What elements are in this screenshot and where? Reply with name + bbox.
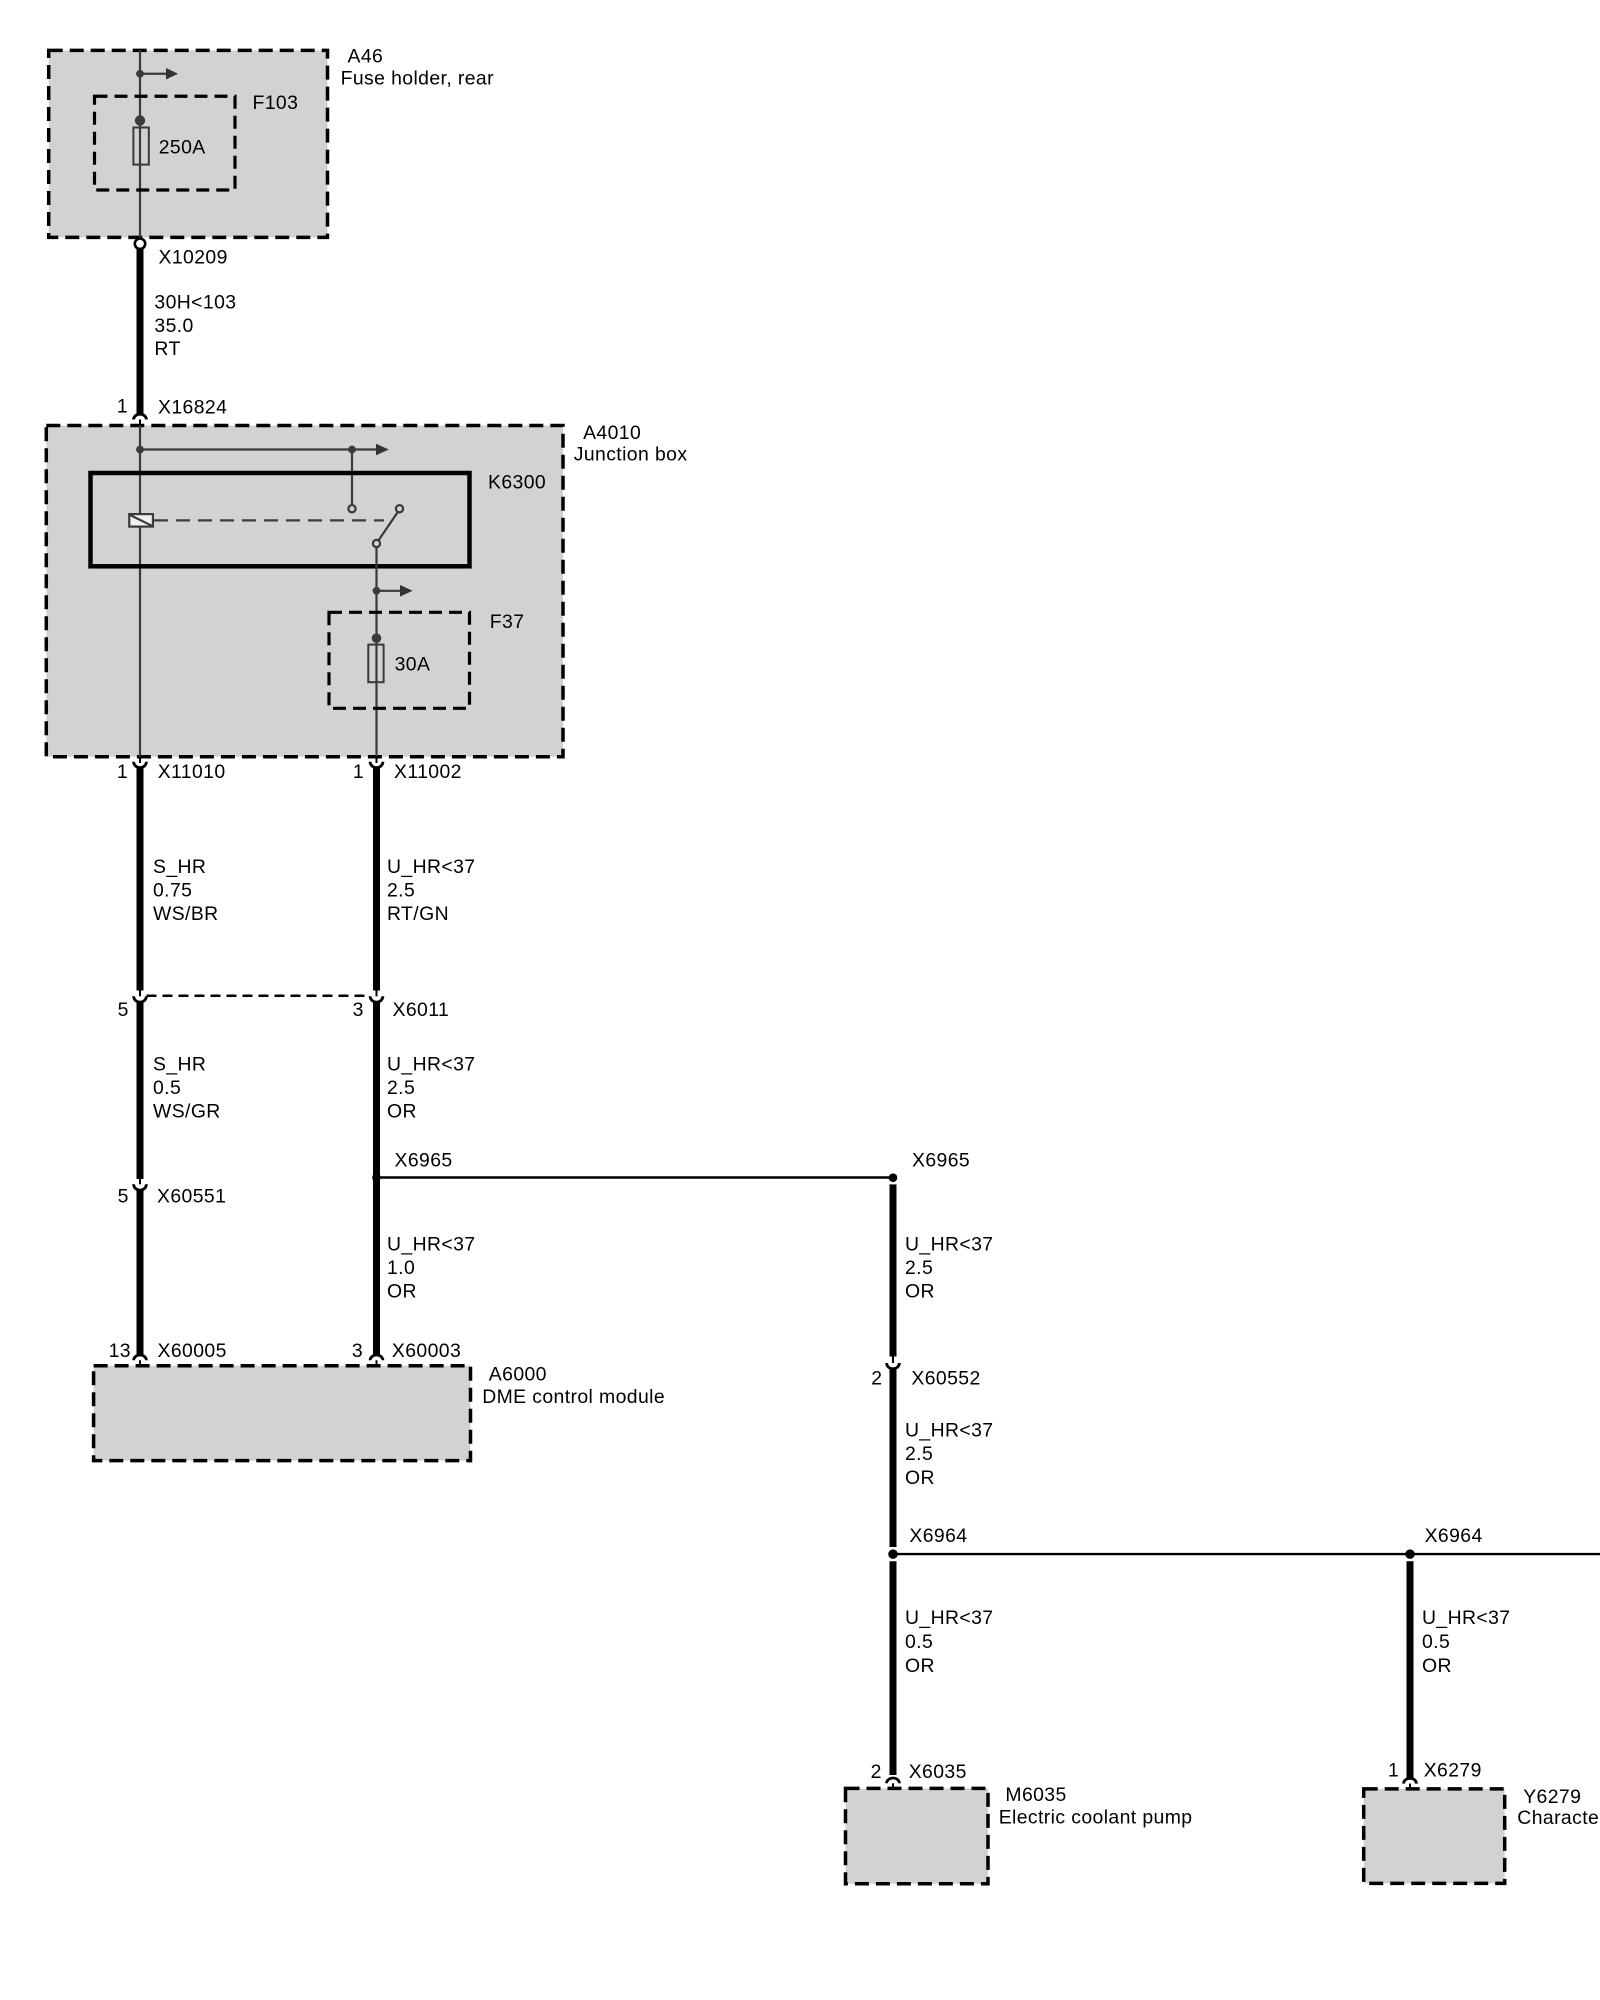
label Y6279: [1517, 1786, 1600, 1829]
connector X11002 pin 1: [370, 757, 383, 768]
label A6000: [482, 1364, 665, 1409]
relay contact out: [373, 540, 380, 547]
wire to relay contact 30: [351, 450, 353, 506]
label wire S_HR 0.75 WS/BR: [153, 856, 219, 925]
svg-text:X11010: X11010: [158, 761, 226, 783]
svg-text:Fuse holder, rear: Fuse holder, rear: [341, 67, 495, 89]
svg-text:M6035: M6035: [1005, 1784, 1066, 1806]
svg-text:X6964: X6964: [909, 1525, 967, 1547]
svg-text:U_HR<37: U_HR<37: [387, 1233, 476, 1255]
svg-text:2: 2: [871, 1761, 882, 1783]
wire X6964 to X6279: [1407, 1561, 1414, 1778]
wire from relay to fuse F37: [375, 547, 377, 757]
svg-text:0.5: 0.5: [905, 1631, 933, 1653]
connector X60003 pin 3: [370, 1355, 383, 1366]
svg-text:2: 2: [871, 1367, 882, 1389]
svg-text:X6279: X6279: [1424, 1760, 1482, 1782]
svg-text:X6964: X6964: [1425, 1525, 1483, 1547]
svg-text:X10209: X10209: [159, 246, 228, 268]
label wire U_HR<37 2.5 OR right column: [905, 1233, 994, 1302]
svg-text:0.75: 0.75: [153, 879, 192, 901]
svg-text:OR: OR: [905, 1281, 935, 1303]
junction node below relay: [373, 587, 381, 595]
relay K6300 box: [91, 473, 470, 566]
svg-text:Characteristic map thermostat: Characteristic map thermostat: [1517, 1807, 1600, 1829]
fuse box F103: [95, 96, 236, 190]
label X16824: [117, 396, 227, 419]
label wire U_HR<37 2.5 OR: [387, 1054, 476, 1123]
svg-text:X60552: X60552: [911, 1367, 980, 1389]
characteristic map thermostat Y6279: [1364, 1789, 1505, 1884]
svg-text:2.5: 2.5: [387, 1077, 415, 1099]
label X11010: [117, 761, 226, 783]
svg-text:35.0: 35.0: [154, 315, 193, 337]
svg-text:30A: 30A: [395, 653, 431, 675]
svg-text:X6035: X6035: [909, 1761, 967, 1783]
fuse holder box A46: [49, 50, 328, 237]
svg-text:0.5: 0.5: [1422, 1631, 1450, 1653]
svg-text:F37: F37: [490, 611, 525, 633]
connector X60005 pin 13: [134, 1355, 147, 1366]
connector X11010 pin 1: [134, 757, 147, 768]
electric coolant pump M6035: [846, 1788, 989, 1883]
connector X6011 dashed link: [147, 995, 371, 998]
svg-text:2.5: 2.5: [905, 1257, 933, 1279]
wire inside A4010 left column: [139, 426, 141, 757]
svg-text:30H<103: 30H<103: [154, 291, 236, 313]
wire S_HR 0.5 WS/GR: [137, 1002, 144, 1179]
junction box A4010: [46, 426, 563, 757]
svg-text:WS/GR: WS/GR: [153, 1101, 221, 1123]
svg-text:OR: OR: [905, 1467, 935, 1489]
svg-text:X6965: X6965: [395, 1150, 453, 1172]
splice node X6964 left: [888, 1549, 898, 1559]
svg-text:RT/GN: RT/GN: [387, 903, 449, 925]
label A4010: [574, 422, 688, 466]
arrow branch line in A4010: [140, 444, 389, 456]
svg-text:13: 13: [109, 1340, 131, 1362]
svg-text:0.5: 0.5: [153, 1077, 181, 1099]
connector X6279 pin 1: [1404, 1778, 1417, 1789]
wire inside A46: [139, 50, 141, 238]
svg-text:3: 3: [352, 1340, 363, 1362]
label A46: [341, 46, 495, 90]
connector X60551 pin 5: [134, 1179, 147, 1190]
svg-text:OR: OR: [387, 1281, 417, 1303]
wire U_HR<37 2.5 RT/GN: [373, 767, 380, 991]
splice X6965 link line: [377, 1176, 894, 1178]
svg-text:X6965: X6965: [912, 1150, 970, 1172]
wire U_HR<37 2.5 OR right column: [890, 1184, 897, 1356]
wire to X60005: [137, 1191, 144, 1355]
junction node to relay contact: [348, 446, 356, 454]
svg-text:OR: OR: [387, 1101, 417, 1123]
relay contact 30: [348, 505, 355, 512]
svg-text:U_HR<37: U_HR<37: [905, 1233, 994, 1255]
DME control module A6000: [94, 1366, 471, 1461]
svg-text:5: 5: [118, 1186, 129, 1208]
svg-text:1: 1: [353, 761, 364, 783]
svg-text:U_HR<37: U_HR<37: [387, 856, 476, 878]
label X11002: [353, 761, 462, 783]
label M6035: [999, 1784, 1193, 1829]
connector X60552 pin 2: [887, 1357, 900, 1369]
svg-text:A4010: A4010: [583, 422, 641, 444]
svg-text:OR: OR: [905, 1655, 935, 1677]
svg-text:S_HR: S_HR: [153, 1054, 206, 1076]
label wire U_HR<37 2.5 RT/GN: [387, 856, 476, 925]
svg-text:Electric coolant pump: Electric coolant pump: [999, 1807, 1193, 1829]
wire 30H<103 35.0 RT: [137, 249, 144, 415]
wire U_HR<37 2.5 OR to X6964: [890, 1369, 897, 1547]
svg-text:X16824: X16824: [158, 396, 227, 418]
relay contact 87: [396, 505, 403, 512]
connector X10209: [135, 239, 145, 249]
relay switch blade: [378, 512, 398, 541]
arrow (feed continues) in A46: [140, 68, 178, 80]
svg-text:1: 1: [117, 396, 128, 418]
splice X6964 link line: [893, 1553, 1600, 1555]
wire S_HR 0.75 WS/BR: [137, 767, 144, 991]
svg-text:U_HR<37: U_HR<37: [905, 1607, 994, 1629]
fuse box F37: [329, 612, 470, 708]
label wire S_HR 0.5 WS/GR: [153, 1054, 221, 1123]
svg-text:X60005: X60005: [158, 1340, 227, 1362]
label wire 30H<103: [154, 291, 236, 360]
fuse F103 250A: [133, 115, 148, 164]
svg-text:DME control module: DME control module: [482, 1386, 665, 1408]
label X6279: [1388, 1760, 1482, 1782]
svg-text:5: 5: [118, 999, 129, 1021]
svg-text:1.0: 1.0: [387, 1257, 415, 1279]
svg-text:RT: RT: [154, 338, 180, 360]
svg-text:K6300: K6300: [488, 471, 546, 493]
connector X6011 pin 5: [134, 991, 147, 1003]
splice node X6964 right: [1405, 1549, 1415, 1559]
svg-text:2.5: 2.5: [387, 879, 415, 901]
label X60551: [118, 1186, 227, 1208]
connector X6011 pin 3: [370, 991, 383, 1003]
label X6035: [871, 1761, 967, 1783]
svg-text:1: 1: [117, 761, 128, 783]
label wire U_HR<37 0.5 OR left branch: [905, 1607, 994, 1677]
svg-text:WS/BR: WS/BR: [153, 903, 219, 925]
relay coil: [129, 514, 153, 527]
label X6011: [118, 999, 450, 1021]
label X60552: [871, 1367, 980, 1389]
svg-text:F103: F103: [253, 92, 299, 114]
svg-text:U_HR<37: U_HR<37: [387, 1054, 476, 1076]
connector X16824 pin 1: [134, 414, 147, 426]
svg-text:3: 3: [353, 999, 364, 1021]
svg-text:250A: 250A: [159, 136, 206, 158]
wire U_HR<37 2.5 OR: [373, 1002, 380, 1355]
splice node X6965 right: [889, 1173, 898, 1182]
svg-text:OR: OR: [1422, 1655, 1452, 1677]
splice node X6965 left: [372, 1173, 381, 1182]
svg-text:2.5: 2.5: [905, 1443, 933, 1465]
svg-text:X11002: X11002: [394, 761, 462, 783]
svg-text:A46: A46: [348, 46, 384, 68]
junction node top of A4010: [136, 446, 144, 454]
fuse F37 30A: [368, 633, 383, 682]
arrow branch below relay: [377, 585, 413, 597]
svg-text:X60551: X60551: [157, 1186, 226, 1208]
svg-text:X6011: X6011: [393, 999, 450, 1021]
svg-text:U_HR<37: U_HR<37: [1422, 1607, 1511, 1629]
relay control dashed link: [154, 519, 384, 521]
label wire U_HR<37 2.5 OR segment: [905, 1419, 994, 1488]
label X60003: [352, 1340, 461, 1362]
svg-text:Junction box: Junction box: [574, 444, 688, 466]
svg-text:Y6279: Y6279: [1523, 1786, 1581, 1808]
label X60005: [109, 1340, 227, 1362]
svg-text:A6000: A6000: [489, 1364, 547, 1386]
label wire U_HR<37 0.5 OR right branch: [1422, 1607, 1511, 1677]
connector X6035 pin 2: [887, 1778, 900, 1788]
svg-text:S_HR: S_HR: [153, 856, 206, 878]
label wire U_HR<37 1.0 OR: [387, 1233, 476, 1302]
svg-text:1: 1: [1388, 1760, 1399, 1782]
junction node in A46: [136, 70, 144, 78]
svg-text:X60003: X60003: [392, 1340, 461, 1362]
svg-text:U_HR<37: U_HR<37: [905, 1419, 994, 1441]
